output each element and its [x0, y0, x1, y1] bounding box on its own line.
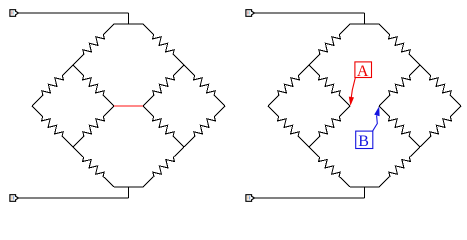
- resistor R16 (upper-left node to center-left node): [309, 65, 350, 106]
- left circuit: bridge lattice with red connecting wire: [10, 10, 225, 202]
- wire bottom stem: [128, 187, 130, 198]
- resistor R13 (top bar to upper-left node): [309, 24, 350, 65]
- port P4 (bottom input terminal): [246, 195, 255, 202]
- wire bottom horizontal: [255, 197, 365, 199]
- node A probe arrow: [351, 78, 355, 98]
- wire node A to node B (red center wire): [114, 105, 143, 107]
- resistor R3 (upper-left node to left vertex): [32, 65, 73, 106]
- resistor R17 (upper-right node to center-right node): [379, 65, 420, 106]
- resistor R8 (center-left node to lower-left node): [73, 106, 114, 147]
- wire bottom bar: [350, 186, 379, 188]
- resistor R10 (right vertex to lower-right node): [184, 106, 225, 147]
- resistor R19 (left vertex to lower-left node): [268, 106, 309, 147]
- svg-text:A: A: [357, 63, 369, 80]
- wire bottom bar: [114, 186, 143, 188]
- wire top bar: [350, 23, 379, 25]
- resistor R2 (top bar to upper-right node): [143, 24, 184, 65]
- resistor R5 (upper-right node to center-right node): [143, 65, 184, 106]
- port P1 (top input terminal): [10, 10, 19, 17]
- node B label box: [356, 131, 373, 148]
- node B probe arrow: [373, 116, 378, 131]
- wire top stem: [128, 13, 130, 24]
- resistor R15 (upper-left node to left vertex): [268, 65, 309, 106]
- resistor R23 (lower-left node to bottom bar): [309, 147, 350, 187]
- wire top horizontal: [255, 12, 365, 14]
- wire bottom horizontal: [19, 197, 129, 199]
- wire top bar: [114, 23, 143, 25]
- port P3 (top input terminal): [246, 10, 255, 17]
- resistor R11 (lower-left node to bottom bar): [73, 147, 114, 187]
- wire top stem: [364, 13, 366, 24]
- resistor R9 (center-right node to lower-right node): [143, 106, 184, 147]
- node A label box: [355, 62, 372, 78]
- wire top horizontal: [19, 12, 129, 14]
- resistor R20 (center-left node to lower-left node): [309, 106, 350, 147]
- right circuit: bridge lattice with probe labels A and B: [246, 10, 461, 202]
- resistor R1 (top bar to upper-left node): [73, 24, 114, 65]
- resistor R12 (lower-right node to bottom bar): [143, 147, 184, 187]
- resistor R22 (right vertex to lower-right node): [420, 106, 461, 147]
- resistor R21 (center-right node to lower-right node): [379, 106, 420, 147]
- resistor R18 (upper-right node to right vertex): [420, 65, 461, 106]
- port P2 (bottom input terminal): [10, 195, 19, 202]
- wire bottom stem: [364, 187, 366, 198]
- resistor R7 (left vertex to lower-left node): [32, 106, 73, 147]
- resistor R24 (lower-right node to bottom bar): [379, 147, 420, 187]
- resistor R14 (top bar to upper-right node): [379, 24, 420, 65]
- resistor R4 (upper-left node to center-left node): [73, 65, 114, 106]
- svg-text:B: B: [358, 133, 369, 150]
- resistor R6 (upper-right node to right vertex): [184, 65, 225, 106]
